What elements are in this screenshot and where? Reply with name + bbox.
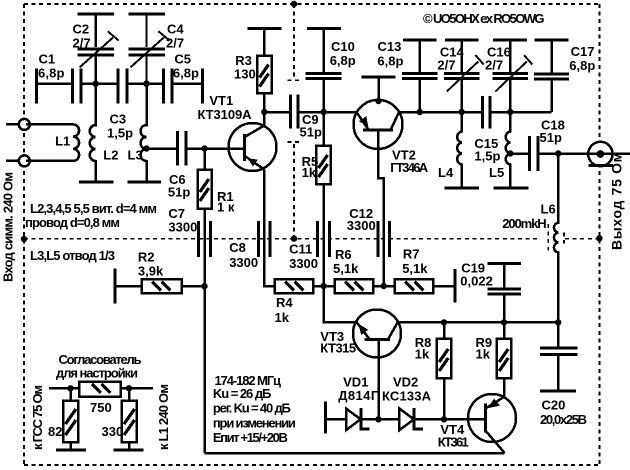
- svg-text:6,8p: 6,8p: [377, 54, 403, 69]
- node dot R9 C19 rail: [501, 319, 507, 325]
- svg-text:для настройки: для настройки: [56, 366, 138, 381]
- svg-text:VD2: VD2: [393, 375, 418, 390]
- capacitor C6: [176, 131, 179, 166]
- output connector: [588, 142, 612, 166]
- ground bar left of C1: [35, 69, 38, 104]
- wire R4 to node: [313, 285, 335, 288]
- inductor L2: [90, 86, 96, 182]
- capacitor C10: [322, 29, 325, 74]
- node dot R3 collector: [261, 109, 267, 115]
- node dot VT2 case: [375, 98, 381, 104]
- shield box bottom dashed border: [24, 464, 599, 466]
- capacitor C17: [550, 40, 553, 74]
- resistor R1: [203, 149, 206, 170]
- svg-text:C2: C2: [73, 22, 90, 37]
- wire R2 to vertical: [182, 285, 205, 288]
- capacitor C11 feedthrough: [316, 221, 319, 257]
- svg-text:L3,L5 отвод 1/3: L3,L5 отвод 1/3: [30, 248, 115, 263]
- wire R7 to ground bar: [433, 285, 455, 288]
- svg-text:130: 130: [234, 67, 256, 82]
- shield partition vertical wall: [288, 4, 302, 237]
- wire L3 tap to C6: [147, 147, 177, 150]
- node dot C4 L3: [143, 81, 149, 87]
- capacitor C1: [71, 69, 74, 104]
- capacitor C3: [117, 69, 120, 104]
- node dot C10 rail: [320, 109, 326, 115]
- svg-text:C11: C11: [289, 242, 312, 257]
- svg-text:200mkH: 200mkH: [502, 216, 547, 231]
- shield box left dashed border: [23, 4, 25, 465]
- wire R5 down through C11 to mid rail: [322, 184, 325, 286]
- ground bar 82: [56, 449, 86, 452]
- node dot right partition: [596, 235, 602, 241]
- ground bar right of R7: [453, 269, 456, 302]
- wire C5 to right bar: [173, 82, 203, 85]
- svg-text:Вход симм. 240 Ом: Вход симм. 240 Ом: [1, 172, 16, 282]
- capacitor C19: [503, 264, 506, 290]
- resistor R4: [275, 279, 313, 293]
- wire bar to C1: [36, 82, 71, 85]
- capacitor C20: [557, 322, 560, 348]
- inductor L6: [554, 154, 558, 323]
- capacitor C15: [481, 96, 484, 129]
- transistor VT3: [353, 310, 401, 358]
- capacitor C18: [528, 136, 531, 171]
- svg-text:3300: 3300: [347, 218, 376, 233]
- wire terminal to L1 bottom: [26, 160, 73, 163]
- inductor L4: [457, 112, 462, 188]
- resistor 750: [79, 382, 121, 397]
- capacitor C2 variable: [94, 14, 96, 47]
- ground bar right of C5: [201, 69, 204, 104]
- svg-text:R4: R4: [276, 295, 293, 310]
- svg-text:3,9k: 3,9k: [138, 264, 164, 279]
- svg-text:3300: 3300: [168, 220, 197, 235]
- node dot C16 L5 rail: [507, 109, 513, 115]
- ground bar above C19: [487, 262, 520, 265]
- wire node down to VT3 emitter: [324, 286, 357, 322]
- svg-text:1,5p: 1,5p: [474, 149, 500, 164]
- ground bar C20: [540, 389, 576, 392]
- svg-text:Епит +15/+20В: Епит +15/+20В: [213, 430, 288, 445]
- wire VT1 emitter down through C8 to R4 corner: [264, 170, 275, 287]
- node dot partition cross: [291, 235, 297, 241]
- svg-text:51p: 51p: [168, 184, 190, 199]
- svg-text:C8: C8: [229, 240, 246, 255]
- svg-text:Выход 75 Ом: Выход 75 Ом: [609, 152, 625, 250]
- ground bar above C4: [128, 13, 165, 16]
- svg-text:C13: C13: [378, 39, 402, 54]
- svg-text:провод d=0,8 мм: провод d=0,8 мм: [25, 215, 120, 230]
- svg-text:R2: R2: [138, 250, 155, 265]
- wire C6 to VT1 base node: [187, 147, 243, 150]
- svg-text:3300: 3300: [289, 256, 318, 271]
- shield box right dashed border: [598, 4, 600, 465]
- wire VD1 to node: [361, 418, 400, 421]
- wire input stub top: [6, 123, 19, 126]
- svg-text:1,5p: 1,5p: [107, 126, 133, 141]
- ground bar L5: [494, 187, 529, 190]
- capacitor C14 variable: [460, 40, 463, 74]
- wire R6 to R7: [373, 285, 395, 288]
- input terminal bottom: [19, 155, 30, 166]
- capacitor C7 feedthrough: [197, 221, 200, 257]
- node dot VD2 R8: [441, 416, 447, 422]
- ground bar above C16: [493, 39, 527, 42]
- svg-text:L6: L6: [541, 202, 556, 217]
- node dot R8 rail: [441, 319, 447, 325]
- node dot left partition: [21, 236, 27, 242]
- transistor VT2: [354, 100, 403, 149]
- wire bar to VD1: [326, 418, 346, 421]
- svg-text:C4: C4: [167, 22, 184, 37]
- wire right stub: [121, 387, 153, 390]
- wire VT4 collector to feedback: [205, 452, 505, 455]
- capacitor C13: [418, 40, 421, 74]
- ground bar above C17: [535, 39, 569, 42]
- node dot L6 C20 rail: [555, 319, 561, 325]
- capacitor C12 feedthrough: [376, 221, 379, 257]
- svg-text:КТ315: КТ315: [320, 341, 356, 356]
- wire R1 down through C7 to bottom: [203, 209, 206, 454]
- capacitor C9: [289, 95, 292, 129]
- ground bar left of VD1: [324, 401, 327, 433]
- resistor R6: [335, 279, 373, 293]
- VT2 base wire down through C12: [378, 130, 384, 286]
- svg-text:рег. Ku = 40 дБ: рег. Ku = 40 дБ: [213, 401, 291, 416]
- node dot VT1 base: [201, 145, 207, 151]
- svg-text:330: 330: [102, 424, 124, 439]
- ground bar above R3: [248, 27, 282, 30]
- svg-text:L2: L2: [103, 148, 118, 163]
- resistor R8: [443, 322, 446, 338]
- resistor R3: [263, 29, 266, 56]
- svg-text:C17: C17: [571, 44, 595, 59]
- node dot R6 R7 C12 node: [381, 283, 387, 289]
- svg-text:6,8p: 6,8p: [173, 66, 199, 81]
- VT3 base wire down: [377, 340, 380, 420]
- resistor R9: [503, 322, 506, 338]
- ground bar L2: [79, 181, 114, 184]
- svg-text:Ku = 26 дБ: Ku = 26 дБ: [213, 386, 272, 401]
- shield partition horizontal wall: [24, 224, 599, 250]
- svg-text:L5: L5: [489, 165, 504, 180]
- svg-text:L2,3,4,5 5,5 вит. d=4 мм: L2,3,4,5 5,5 вит. d=4 мм: [30, 201, 157, 216]
- svg-text:51p: 51p: [300, 125, 322, 140]
- capacitor C5: [162, 69, 165, 104]
- wire L5 tap to C18: [510, 152, 528, 155]
- wire VD2 to VT4 base: [414, 418, 485, 421]
- svg-text:ГТ346А: ГТ346А: [390, 160, 429, 175]
- ground bar L3: [128, 181, 162, 184]
- wire C1 to node A: [82, 82, 118, 85]
- inductor L5: [506, 112, 511, 188]
- ground bar L4: [444, 187, 479, 190]
- VT2 case lead to ground: [362, 76, 396, 79]
- svg-text:1k: 1k: [415, 347, 430, 362]
- node dot 82 tap: [67, 385, 73, 391]
- node dot R2 junction: [201, 283, 207, 289]
- wire left stub: [49, 387, 79, 390]
- wire input stub bottom: [6, 160, 19, 163]
- svg-text:КТ3109А: КТ3109А: [198, 107, 253, 122]
- svg-text:L4: L4: [438, 165, 454, 180]
- node dot R4 C11 node: [320, 283, 326, 289]
- inductor L3: [141, 86, 147, 182]
- node dot C13 rail: [417, 109, 423, 115]
- svg-text:6,8p: 6,8p: [569, 58, 595, 73]
- svg-text:к ГСС 75 Ом: к ГСС 75 Ом: [30, 385, 45, 450]
- svg-text:2/7: 2/7: [485, 57, 503, 72]
- svg-text:5,1k: 5,1k: [402, 261, 428, 276]
- wire VT2 collector rail: [399, 111, 481, 114]
- ground bar above C13: [403, 39, 437, 42]
- svg-text:1k: 1k: [476, 347, 491, 362]
- svg-text:2/7: 2/7: [437, 57, 455, 72]
- node dot L3 tap: [143, 145, 149, 151]
- diode VD1 zener: [346, 409, 361, 431]
- transistor VT4: [468, 394, 516, 442]
- resistor 82: [69, 388, 72, 400]
- node dot 330 tap: [126, 385, 132, 391]
- svg-text:2/7: 2/7: [73, 36, 91, 51]
- node dot top border partition: [291, 1, 297, 7]
- svg-text:6,8p: 6,8p: [330, 53, 356, 68]
- inductor L1: [73, 124, 79, 161]
- svg-text:750: 750: [90, 400, 112, 415]
- svg-text:L1: L1: [55, 133, 70, 148]
- transistor VT1: [229, 123, 277, 171]
- svg-text:© UO5OHX ex RO5OWG: © UO5OHX ex RO5OWG: [423, 11, 545, 26]
- svg-text:2/7: 2/7: [166, 36, 184, 51]
- svg-text:C5: C5: [174, 52, 191, 67]
- svg-text:5,1k: 5,1k: [333, 261, 359, 276]
- svg-text:C1: C1: [39, 52, 56, 67]
- input terminal top: [19, 119, 30, 130]
- svg-text:Д814Г: Д814Г: [338, 388, 379, 403]
- ground bar above C2: [78, 13, 114, 16]
- svg-text:КС133А: КС133А: [382, 389, 432, 404]
- node dot C2 L2: [93, 81, 99, 87]
- resistor 330: [128, 388, 131, 400]
- capacitor C8 feedthrough: [257, 221, 260, 257]
- power rail VT3 collector to L6: [398, 321, 558, 324]
- svg-text:к L1 240 Ом: к L1 240 Ом: [156, 384, 171, 450]
- ground bar above C10: [307, 27, 341, 30]
- svg-text:1k: 1k: [275, 310, 290, 325]
- svg-text:6,8p: 6,8p: [38, 66, 65, 81]
- resistor R5: [322, 112, 325, 146]
- node dot VD1 VT3 base: [375, 416, 381, 422]
- svg-text:R7: R7: [403, 247, 420, 262]
- svg-text:C3: C3: [110, 112, 127, 127]
- resistor R7: [395, 279, 433, 293]
- capacitor C16 variable: [509, 40, 512, 74]
- ground bar above C14: [445, 39, 479, 42]
- wire C10 to rail: [322, 78, 325, 112]
- wire terminal to L1 top: [26, 123, 73, 126]
- wire C9 to VT2 emitter: [300, 111, 357, 114]
- node dot output L6: [555, 150, 561, 156]
- ground bar left of R2: [113, 269, 116, 304]
- node dot L5 tap: [507, 150, 513, 156]
- svg-text:20,0x25В: 20,0x25В: [540, 412, 587, 427]
- svg-text:КТ361: КТ361: [438, 435, 469, 450]
- svg-text:R6: R6: [335, 247, 352, 262]
- svg-text:1k: 1k: [302, 165, 317, 180]
- svg-text:82: 82: [48, 424, 62, 439]
- svg-text:51p: 51p: [540, 130, 562, 145]
- svg-text:0,022: 0,022: [460, 273, 493, 288]
- wire node to C9: [264, 111, 289, 114]
- wire C18 to output: [539, 152, 630, 155]
- svg-text:C20: C20: [542, 398, 566, 413]
- svg-text:1 к: 1 к: [217, 200, 235, 215]
- svg-text:C10: C10: [331, 39, 355, 54]
- capacitor C4 variable: [145, 14, 147, 47]
- wire rail to C17: [510, 111, 551, 114]
- wire C15 to L5 node: [492, 111, 511, 114]
- diode VD2 zener: [399, 409, 414, 431]
- svg-text:при изменении: при изменении: [213, 415, 296, 430]
- wire C3 to node B: [128, 82, 163, 85]
- ground bar 330: [114, 449, 144, 452]
- resistor R2: [142, 279, 182, 293]
- svg-text:L3: L3: [128, 148, 143, 163]
- wire bar to R2: [115, 285, 142, 288]
- svg-text:VT1: VT1: [209, 93, 233, 108]
- shield box top dashed border: [24, 3, 599, 5]
- svg-text:3300: 3300: [229, 255, 258, 270]
- node dot C14 L4 rail: [459, 109, 465, 115]
